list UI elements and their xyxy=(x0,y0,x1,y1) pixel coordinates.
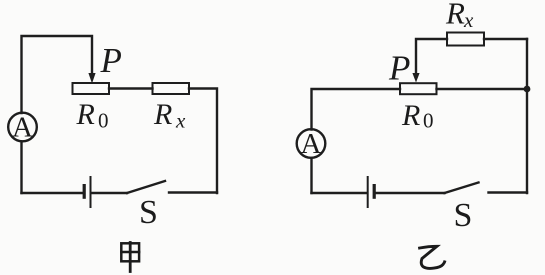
svg-text:R: R xyxy=(153,98,172,131)
svg-text:x: x xyxy=(463,8,474,32)
svg-text:R: R xyxy=(445,0,465,31)
svg-text:R: R xyxy=(76,98,95,131)
svg-text:R: R xyxy=(401,99,420,132)
svg-text:A: A xyxy=(12,112,33,144)
svg-text:0: 0 xyxy=(98,109,109,133)
svg-text:P: P xyxy=(388,49,410,88)
svg-text:P: P xyxy=(100,41,122,80)
svg-text:S: S xyxy=(139,194,158,231)
svg-text:A: A xyxy=(301,128,322,160)
svg-text:x: x xyxy=(175,109,186,133)
svg-text:S: S xyxy=(454,197,473,234)
svg-text:0: 0 xyxy=(423,109,434,133)
